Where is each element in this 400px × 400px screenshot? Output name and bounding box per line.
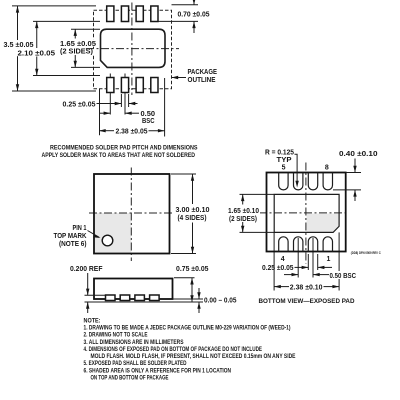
svg-text:0.200 REF: 0.200 REF bbox=[70, 266, 103, 273]
svg-text:PIN 1: PIN 1 bbox=[73, 225, 87, 232]
svg-text:3.00 ±0.10: 3.00 ±0.10 bbox=[176, 207, 210, 214]
svg-text:4. DIMENSIONS OF EXPOSED PAD O: 4. DIMENSIONS OF EXPOSED PAD ON BOTTOM O… bbox=[84, 346, 263, 353]
svg-text:0.70 ±0.05: 0.70 ±0.05 bbox=[178, 12, 210, 19]
svg-text:TOP MARK: TOP MARK bbox=[54, 233, 87, 240]
svg-text:BSC: BSC bbox=[142, 118, 155, 125]
svg-text:0.25 ±0.05: 0.25 ±0.05 bbox=[262, 265, 294, 272]
svg-text:0.50: 0.50 bbox=[141, 111, 156, 118]
svg-text:(2 SIDES): (2 SIDES) bbox=[229, 216, 257, 223]
svg-text:0.75 ±0.05: 0.75 ±0.05 bbox=[176, 266, 209, 273]
svg-text:RECOMMENDED SOLDER PAD PITCH A: RECOMMENDED SOLDER PAD PITCH AND DIMENSI… bbox=[50, 145, 198, 152]
svg-text:R = 0.125: R = 0.125 bbox=[265, 150, 294, 157]
svg-text:5: 5 bbox=[282, 165, 286, 172]
svg-text:0.40 ±0.10: 0.40 ±0.10 bbox=[339, 151, 378, 158]
svg-text:BOTTOM VIEW—EXPOSED PAD: BOTTOM VIEW—EXPOSED PAD bbox=[259, 298, 355, 305]
svg-text:1.65 ±0.05: 1.65 ±0.05 bbox=[60, 41, 96, 48]
svg-text:0.50 BSC: 0.50 BSC bbox=[330, 273, 357, 280]
svg-text:4: 4 bbox=[281, 256, 285, 263]
svg-text:5. EXPOSED PAD SHALL BE SOLDER: 5. EXPOSED PAD SHALL BE SOLDER PLATED bbox=[84, 360, 187, 367]
svg-text:NOTE:: NOTE: bbox=[84, 317, 101, 324]
svg-text:APPLY SOLDER MASK TO AREAS THA: APPLY SOLDER MASK TO AREAS THAT ARE NOT … bbox=[42, 152, 196, 159]
svg-text:6. SHADED AREA IS ONLY A REFER: 6. SHADED AREA IS ONLY A REFERENCE FOR P… bbox=[84, 367, 232, 374]
svg-text:TYP: TYP bbox=[277, 157, 292, 164]
svg-text:2.38 ±0.05: 2.38 ±0.05 bbox=[116, 129, 148, 136]
svg-text:(NOTE 6): (NOTE 6) bbox=[59, 241, 87, 248]
svg-text:OUTLINE: OUTLINE bbox=[188, 77, 216, 84]
svg-text:(DD8) DFN 0509 REV C: (DD8) DFN 0509 REV C bbox=[351, 251, 381, 255]
svg-text:MOLD FLASH. MOLD FLASH, IF PRE: MOLD FLASH. MOLD FLASH, IF PRESENT, SHAL… bbox=[91, 353, 296, 360]
svg-text:(2 SIDES): (2 SIDES) bbox=[60, 49, 93, 56]
svg-text:1.65 ±0.10: 1.65 ±0.10 bbox=[228, 208, 259, 215]
svg-text:3. ALL DIMENSIONS ARE IN MILLI: 3. ALL DIMENSIONS ARE IN MILLIMETERS bbox=[84, 339, 184, 346]
svg-text:1. DRAWING TO BE MADE A JEDEC: 1. DRAWING TO BE MADE A JEDEC PACKAGE OU… bbox=[84, 325, 291, 332]
svg-text:3.5 ±0.05: 3.5 ±0.05 bbox=[4, 42, 34, 49]
svg-text:1: 1 bbox=[327, 256, 331, 263]
svg-text:0.00 – 0.05: 0.00 – 0.05 bbox=[204, 298, 237, 305]
svg-text:0.25 ±0.05: 0.25 ±0.05 bbox=[63, 101, 96, 108]
svg-text:(4 SIDES): (4 SIDES) bbox=[178, 215, 207, 222]
svg-text:PACKAGE: PACKAGE bbox=[188, 69, 218, 76]
svg-text:8: 8 bbox=[325, 165, 329, 172]
svg-text:ON TOP AND BOTTOM OF PACKAGE: ON TOP AND BOTTOM OF PACKAGE bbox=[91, 375, 169, 382]
svg-text:2.10 ±0.05: 2.10 ±0.05 bbox=[18, 51, 56, 58]
svg-text:2.38 ±0.10: 2.38 ±0.10 bbox=[290, 285, 323, 292]
svg-text:2. DRAWING NOT TO SCALE: 2. DRAWING NOT TO SCALE bbox=[84, 332, 148, 339]
